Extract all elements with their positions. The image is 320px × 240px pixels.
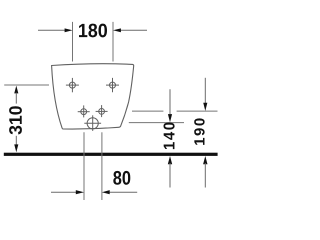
dim 180: left arrow bbox=[38, 28, 73, 32]
dim 310: extension line at upper holes level bbox=[4, 84, 49, 86]
dim 140: upper arrow (pointing down) bbox=[168, 89, 172, 122]
dim 140: lower arrow (pointing up from below floor) bbox=[168, 156, 172, 188]
dim 180: label bbox=[79, 24, 107, 38]
dim 180: right arrow bbox=[113, 28, 147, 32]
fixing hole upper-left (crosshair) bbox=[66, 78, 79, 92]
dim 190: label (rotated) bbox=[194, 118, 204, 144]
bidet body outline bbox=[52, 64, 134, 129]
dim 80: left extension line bbox=[83, 132, 85, 200]
dim 80: right arrow bbox=[102, 190, 137, 194]
drain hole (large crosshair) bbox=[84, 115, 101, 131]
small hole lower-right (crosshair) bbox=[96, 105, 108, 117]
dim 80: left arrow bbox=[51, 190, 84, 194]
dim 140: label (rotated) bbox=[164, 122, 175, 149]
fixing hole upper-right (crosshair) bbox=[106, 78, 119, 92]
dim 80: right extension line bbox=[101, 132, 103, 200]
dim 180: right extension tick bbox=[112, 22, 114, 62]
dim 80: label bbox=[113, 171, 130, 185]
dim 140: extension line at drain level bbox=[129, 122, 184, 124]
dim 310: upper arrow (pointing up) bbox=[14, 86, 18, 104]
dim 310: lower arrow (pointing down) bbox=[14, 136, 18, 152]
floor/wall thick line bbox=[4, 153, 218, 156]
dim 190: extension line at small holes level (left of 140 line) bbox=[132, 110, 163, 112]
dim 180: left extension tick bbox=[72, 22, 74, 62]
dim 190: extension line at small holes level (right of 140 line) bbox=[177, 110, 218, 112]
dim 190: lower arrow (pointing up from below floor) bbox=[203, 156, 207, 188]
dim 190: upper arrow (pointing down) bbox=[203, 78, 207, 111]
small hole lower-left (crosshair) bbox=[78, 105, 90, 117]
dim 310: label (rotated) bbox=[9, 106, 22, 134]
